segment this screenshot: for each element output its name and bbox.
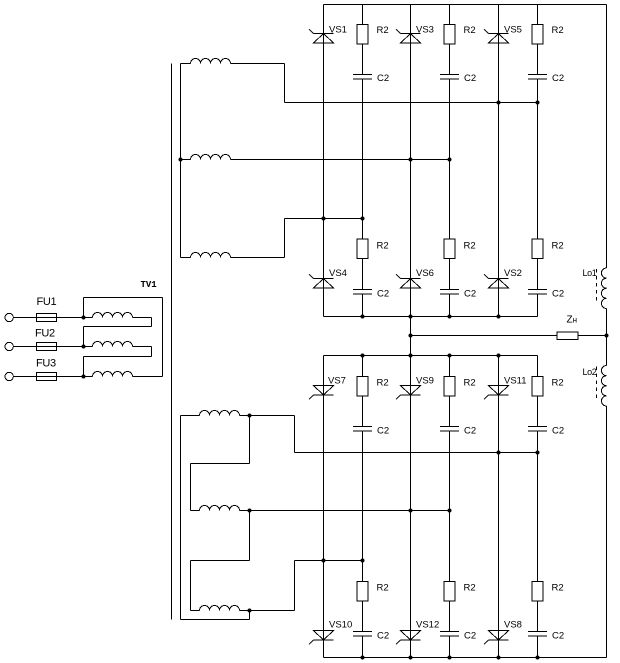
svg-text:VS3: VS3	[416, 25, 434, 36]
svg-text:C2: C2	[377, 289, 389, 300]
wire W8 tap to W9	[249, 511, 251, 561]
svg-text:C2: C2	[464, 631, 476, 642]
inductor Lo1 core (dashed)	[596, 269, 598, 304]
wire phase b2 (to VS9)	[240, 510, 450, 512]
junction c1-snubber	[361, 217, 365, 221]
junction star center	[179, 158, 183, 162]
thyristor VS4	[309, 274, 334, 288]
capacitor C2 (upper 2 row 1)	[440, 75, 459, 80]
junction b2-snubber	[448, 509, 452, 513]
resistor R2 (lower 1 row 1)	[357, 377, 368, 397]
svg-text:R2: R2	[552, 378, 564, 389]
junction W7 tap	[248, 414, 252, 418]
junction top bus lower bridge	[361, 354, 365, 358]
wire W2 leads	[84, 346, 93, 348]
junction primary node A	[82, 316, 86, 320]
junction bottom bus lower bridge	[536, 656, 540, 660]
svg-text:C2: C2	[464, 73, 476, 84]
thyristor VS7	[309, 386, 334, 400]
junction top bus lower bridge	[448, 354, 452, 358]
svg-text:R2: R2	[552, 25, 564, 36]
wire fuse FU1 to primary node	[57, 317, 84, 319]
junction bottom bus lower bridge	[448, 656, 452, 660]
inductor Lo2	[601, 366, 606, 407]
resistor R2 (lower 2 row 2)	[444, 582, 455, 602]
wire W3 leads	[84, 376, 93, 378]
wire bottom bus (lower bridge)	[324, 657, 607, 659]
resistor Zн (load)	[557, 332, 578, 340]
svg-text:C2: C2	[552, 73, 564, 84]
thyristor VS2	[484, 274, 509, 288]
svg-text:C2: C2	[552, 631, 564, 642]
thyristor VS12	[396, 631, 421, 645]
wire snubber column upper 1	[362, 5, 364, 317]
wire fuse FU2 to primary node	[57, 346, 84, 348]
wire fuse FU3 to primary node	[57, 376, 84, 378]
wire W9 output	[240, 610, 295, 612]
secondary winding W4	[181, 63, 191, 65]
svg-text:VS8: VS8	[504, 620, 522, 631]
svg-text:TV1: TV1	[141, 280, 158, 290]
primary winding W1	[93, 313, 133, 318]
junction c2-VS7	[322, 559, 326, 563]
junction primary node C	[82, 375, 86, 379]
svg-text:FU1: FU1	[37, 296, 57, 308]
junction a1-snubber	[536, 101, 540, 105]
wire snubber column upper 3	[537, 5, 539, 317]
wire phase c1 (to VS1)	[285, 218, 363, 220]
wire W7 to phase line a2	[294, 416, 296, 453]
fuse FU3	[37, 373, 57, 381]
wire Zh to right bus	[578, 335, 607, 337]
svg-text:VS9: VS9	[416, 376, 434, 387]
capacitor C2 (lower 3 row 2)	[528, 632, 547, 637]
svg-text:FU2: FU2	[35, 328, 55, 340]
wire phase a2 (to VS11)	[295, 452, 538, 454]
svg-text:VS10: VS10	[329, 620, 352, 631]
wire W4 to phase line a1	[231, 63, 285, 65]
resistor R2 (upper 2 row 2)	[444, 239, 455, 259]
wire right bus lower	[606, 406, 608, 658]
svg-text:VS11: VS11	[504, 376, 527, 387]
svg-text:C2: C2	[552, 289, 564, 300]
junction top bus lower bridge	[409, 354, 413, 358]
svg-text:R2: R2	[552, 583, 564, 594]
svg-text:R2: R2	[377, 583, 389, 594]
wire thyristor column VS11/VS8	[498, 356, 500, 658]
terminal input 1	[5, 313, 13, 321]
wire thyristor column VS9/VS12	[410, 356, 412, 658]
thyristor VS1	[309, 29, 334, 43]
resistor R2 (lower 2 row 1)	[444, 377, 455, 397]
wire W9 to phase line c2	[294, 561, 296, 611]
fuse FU2	[37, 343, 57, 351]
wire right bus middle	[606, 309, 608, 366]
svg-text:Lo2: Lo2	[583, 367, 597, 377]
wire top bus (cathode bus, upper bridge)	[324, 4, 607, 6]
wire right bus upper	[606, 5, 608, 269]
junction b1-VS3	[409, 158, 413, 162]
wire phase a1 (to VS5)	[285, 102, 538, 104]
svg-text:R2: R2	[552, 241, 564, 252]
resistor R2 (lower 1 row 2)	[357, 582, 368, 602]
junction b1-snubber	[448, 158, 452, 162]
primary winding W2	[93, 342, 133, 347]
junction bottom bus upper bridge	[409, 315, 413, 319]
svg-text:VS12: VS12	[416, 620, 439, 631]
svg-text:R2: R2	[377, 25, 389, 36]
svg-text:VS7: VS7	[328, 376, 346, 387]
thyristor VS5	[484, 29, 509, 43]
junction c1-VS1	[322, 217, 326, 221]
junction a2-VS11	[497, 451, 501, 455]
thyristor VS6	[396, 274, 421, 288]
wire W3 right to node A	[162, 298, 164, 377]
thyristor VS11	[484, 386, 509, 400]
svg-text:C2: C2	[464, 289, 476, 300]
junction load tap right	[605, 334, 609, 338]
wire terminal 1 to fuse FU1	[13, 317, 36, 319]
secondary winding W8	[191, 510, 200, 512]
svg-text:R2: R2	[464, 25, 476, 36]
wire W1 leads	[84, 317, 93, 319]
terminal input 3	[5, 372, 13, 380]
resistor R2 (upper 1 row 2)	[357, 239, 368, 259]
svg-text:C2: C2	[464, 426, 476, 437]
wire W7 tap to W8	[249, 416, 251, 464]
svg-text:C2: C2	[377, 73, 389, 84]
junction a2-snubber	[536, 451, 540, 455]
svg-text:Lo1: Lo1	[583, 268, 597, 278]
wire snubber column lower 1	[362, 356, 364, 658]
junction W8 tap	[248, 509, 252, 513]
wire W9 tap return to W7	[249, 611, 251, 620]
resistor R2 (lower 3 row 2)	[532, 582, 543, 602]
junction bottom bus lower bridge	[361, 656, 365, 660]
wire snubber column lower 2	[449, 356, 451, 658]
capacitor C2 (lower 1 row 2)	[353, 632, 372, 637]
svg-text:R2: R2	[377, 241, 389, 252]
capacitor C2 (lower 2 row 1)	[440, 427, 459, 432]
wire thyristor column VS5/VS2	[498, 5, 500, 317]
thyristor VS3	[396, 29, 421, 43]
junction a1-VS5	[497, 101, 501, 105]
wire snubber column upper 2	[449, 5, 451, 317]
svg-text:VS1: VS1	[329, 25, 347, 36]
wire midpoint link	[410, 317, 412, 356]
wire snubber column lower 3	[537, 356, 539, 658]
thyristor VS9	[396, 386, 421, 400]
junction c2-snubber	[361, 559, 365, 563]
svg-text:VS2: VS2	[504, 268, 522, 279]
resistor R2 (upper 3 row 2)	[532, 239, 543, 259]
wire phase b1 (to VS3)	[231, 159, 450, 161]
junction b2-VS9	[409, 509, 413, 513]
junction bottom bus lower bridge	[409, 656, 413, 660]
secondary winding W6	[181, 257, 191, 259]
secondary winding W7	[181, 415, 200, 417]
capacitor C2 (lower 1 row 1)	[353, 427, 372, 432]
wire thyristor column VS3/VS6	[410, 5, 412, 317]
svg-text:R2: R2	[464, 241, 476, 252]
resistor R2 (upper 3 row 1)	[532, 25, 543, 45]
wire terminal 3 to fuse FU3	[13, 376, 36, 378]
svg-text:VS5: VS5	[504, 25, 522, 36]
svg-text:VS6: VS6	[416, 268, 434, 279]
svg-text:Zн: Zн	[567, 315, 578, 326]
capacitor C2 (upper 1 row 2)	[353, 290, 372, 295]
wire W1 right to node B	[151, 318, 153, 327]
junction bottom bus upper bridge	[448, 315, 452, 319]
capacitor C2 (upper 3 row 1)	[528, 75, 547, 80]
capacitor C2 (lower 3 row 1)	[528, 427, 547, 432]
svg-text:C2: C2	[552, 426, 564, 437]
terminal input 2	[5, 342, 13, 350]
secondary delta left wire	[180, 416, 182, 620]
junction top bus lower bridge	[497, 354, 501, 358]
wire terminal 2 to fuse FU2	[13, 346, 36, 348]
wire W7 output	[240, 415, 295, 417]
wire thyristor column VS7/VS10	[323, 356, 325, 658]
primary winding W3	[93, 372, 133, 377]
junction primary node B	[82, 345, 86, 349]
svg-text:R2: R2	[464, 583, 476, 594]
fuse FU1	[37, 314, 57, 322]
wire load to Zh	[411, 335, 558, 337]
thyristor VS8	[484, 631, 509, 645]
junction bottom bus lower bridge	[497, 656, 501, 660]
wire top bus (lower bridge)	[324, 355, 538, 357]
secondary star common wire	[180, 64, 182, 258]
secondary winding W5	[181, 159, 191, 161]
wire thyristor column VS1/VS4	[323, 5, 325, 317]
capacitor C2 (upper 3 row 2)	[528, 290, 547, 295]
junction W9 tap	[248, 609, 252, 613]
capacitor C2 (lower 2 row 2)	[440, 632, 459, 637]
wire W6 to phase line c1	[231, 257, 285, 259]
junction load tap left	[409, 334, 413, 338]
wire W2 right to node C	[151, 347, 153, 357]
resistor R2 (upper 2 row 1)	[444, 25, 455, 45]
capacitor C2 (upper 2 row 2)	[440, 290, 459, 295]
svg-text:VS4: VS4	[329, 268, 347, 279]
transformer core	[171, 64, 173, 620]
secondary winding W9	[191, 610, 200, 612]
wire bottom bus (upper bridge)	[324, 316, 538, 318]
junction bottom bus upper bridge	[497, 315, 501, 319]
resistor R2 (lower 3 row 1)	[532, 377, 543, 397]
svg-text:R2: R2	[377, 378, 389, 389]
svg-text:C2: C2	[377, 631, 389, 642]
junction bottom bus upper bridge	[361, 315, 365, 319]
inductor Lo2 core (dashed)	[596, 367, 598, 402]
inductor Lo1	[601, 268, 606, 309]
thyristor VS10	[309, 631, 334, 645]
wire phase c2 (to VS7)	[295, 560, 363, 562]
svg-text:C2: C2	[377, 426, 389, 437]
svg-text:FU3: FU3	[36, 358, 56, 370]
svg-text:R2: R2	[464, 378, 476, 389]
resistor R2 (upper 1 row 1)	[357, 25, 368, 45]
capacitor C2 (upper 1 row 1)	[353, 75, 372, 80]
